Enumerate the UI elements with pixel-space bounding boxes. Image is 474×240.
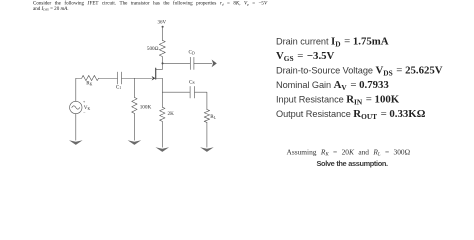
resistor RK (82, 75, 99, 86)
resistor RS 2K (160, 107, 174, 121)
svg-text:CS: CS (189, 79, 195, 85)
wire source lead down (161, 78, 163, 107)
wire CS to RL (195, 92, 207, 109)
wire VK to ground (75, 114, 77, 141)
wire VK to RK (76, 78, 82, 101)
ground (R1) (128, 140, 142, 145)
capacitor CD (188, 50, 194, 70)
solve line (317, 160, 388, 168)
assumption line (287, 148, 411, 157)
wire R1 to ground (133, 113, 135, 140)
svg-text:RK: RK (86, 81, 92, 87)
wire 36V to RD (161, 28, 163, 40)
source VK (70, 99, 91, 115)
capacitor CS (189, 79, 195, 98)
node 36V supply label (157, 20, 166, 28)
svg-text:C1: C1 (116, 84, 121, 90)
svg-text:+: + (83, 99, 86, 104)
resistor RL (204, 110, 216, 123)
problem statement text (33, 1, 303, 11)
wire RS to ground (161, 121, 163, 147)
wire source branch to CS (162, 91, 189, 93)
wire drain branch to CD (162, 62, 190, 64)
node drain junction (162, 62, 164, 64)
svg-text:500Ω: 500Ω (147, 46, 159, 52)
svg-text:2K: 2K (168, 111, 175, 117)
resistor R1 100K (132, 97, 152, 113)
wire RD to drain node (161, 57, 163, 70)
transistor Q1 JFET (152, 68, 163, 80)
svg-text:CD: CD (188, 50, 194, 56)
output arrow (212, 60, 217, 68)
svg-text:100K: 100K (140, 105, 152, 111)
ground (VK) (69, 140, 83, 145)
svg-text:36V: 36V (157, 20, 166, 25)
resistor RD 500ohm (147, 40, 165, 56)
results text block (276, 34, 443, 121)
capacitor C1 (116, 72, 122, 90)
wire RK to C1 (99, 77, 118, 79)
wire RL to ground (206, 122, 208, 147)
wire gate line (122, 77, 152, 79)
wire gate node to R1 (133, 78, 135, 97)
wire CD to output (194, 62, 212, 64)
ground (RL) (200, 147, 214, 152)
svg-text:RL: RL (210, 114, 216, 120)
ground (RS) (156, 147, 170, 152)
